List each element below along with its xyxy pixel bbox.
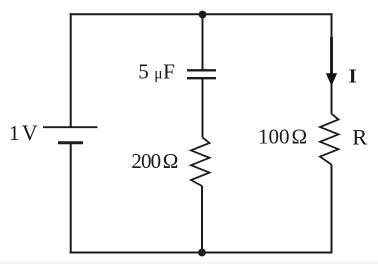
svg-text:1: 1 — [9, 121, 20, 145]
svg-text:Ω: Ω — [292, 125, 308, 149]
svg-text:μ: μ — [154, 66, 162, 83]
svg-text:Ω: Ω — [163, 149, 179, 173]
svg-text:I: I — [349, 66, 357, 88]
svg-text:5: 5 — [138, 60, 149, 84]
svg-text:V: V — [22, 120, 38, 145]
svg-text:F: F — [163, 60, 175, 84]
svg-text:200: 200 — [131, 149, 160, 173]
svg-text:100: 100 — [258, 125, 290, 149]
svg-text:R: R — [352, 125, 367, 150]
